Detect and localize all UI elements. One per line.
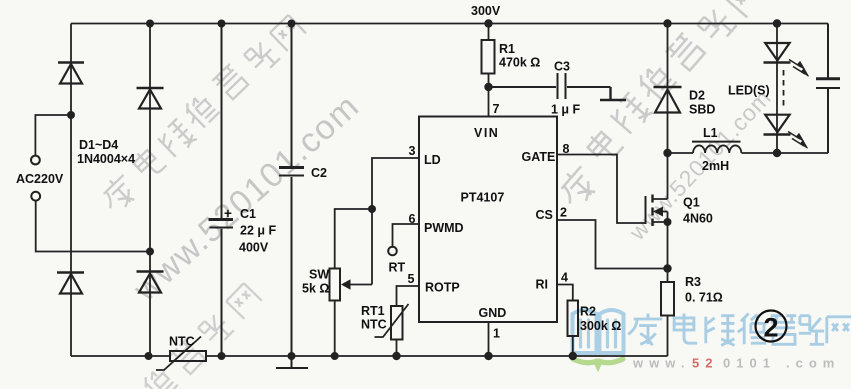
svg-text:3: 3 — [409, 144, 416, 158]
diode D2 of bridge (upper right) — [137, 24, 164, 252]
inductor L1 — [668, 142, 829, 153]
diode D3 (lower left) — [57, 273, 84, 357]
svg-text:LD: LD — [424, 153, 441, 167]
svg-text:52: 52 — [692, 356, 718, 371]
node bottom rail junctions — [145, 352, 578, 360]
wire pin 7 VIN — [488, 87, 490, 117]
svg-text:RT1: RT1 — [361, 304, 385, 318]
dashed series-LED continuation — [783, 70, 785, 108]
svg-text:7: 7 — [493, 102, 500, 116]
svg-text:1N4004×4: 1N4004×4 — [77, 152, 135, 166]
node LED string bottom — [773, 149, 781, 157]
wire pin 6 PWMD to RT terminal — [393, 224, 420, 247]
node CS / R3 junction — [663, 264, 671, 272]
capacitor C1 electrolytic — [209, 24, 234, 357]
svg-text:400V: 400V — [239, 241, 269, 255]
svg-text:.com: .com — [786, 356, 840, 371]
node switch node (D2/L1/drain) — [663, 149, 671, 157]
svg-text:GATE: GATE — [522, 150, 556, 164]
svg-text:NTC: NTC — [169, 335, 195, 349]
transistor Q1 4N60 MOSFET — [646, 153, 668, 269]
svg-text:2: 2 — [560, 206, 567, 220]
url watermark www.520101.com — [632, 356, 840, 371]
AC terminal 2 — [31, 192, 150, 252]
svg-text:8: 8 — [563, 142, 570, 156]
book logo watermark — [573, 310, 624, 366]
watermark diagonal hanzi line right — [553, 0, 765, 211]
resistor R3 — [661, 269, 674, 357]
diode D1 (upper left) — [58, 24, 84, 273]
wire bottom ground rail — [71, 355, 668, 357]
wire pot top feed — [335, 209, 372, 269]
node R1/C3/VIN junction — [484, 83, 492, 91]
svg-text:L1: L1 — [703, 126, 718, 140]
capacitor C2 — [279, 24, 304, 357]
svg-text:1: 1 — [493, 327, 500, 341]
node AC1 junction — [67, 111, 75, 119]
ground symbol for C3 — [600, 87, 626, 100]
svg-text:R2: R2 — [580, 305, 596, 319]
svg-text:NTC: NTC — [361, 318, 387, 332]
ground symbol below C2 — [276, 356, 308, 368]
potentiometer SW 5k — [330, 269, 373, 357]
svg-text:GND: GND — [479, 306, 507, 320]
svg-text:RI: RI — [536, 278, 549, 292]
watermark diagonal hanzi line top-left — [96, 15, 306, 216]
svg-text:AC220V: AC220V — [16, 172, 64, 186]
svg-text:Q1: Q1 — [683, 196, 700, 210]
diode D4 (lower right) — [137, 252, 164, 357]
capacitor across LED string — [816, 24, 840, 154]
svg-text:0. 71Ω: 0. 71Ω — [685, 291, 723, 305]
wire pin 2 CS to source sense — [557, 220, 668, 269]
watermark partial hanzi bottom-left — [138, 283, 261, 389]
svg-text:300V: 300V — [471, 4, 501, 18]
svg-text:www.520101.com: www.520101.com — [126, 87, 367, 310]
svg-text:SW: SW — [309, 268, 329, 282]
svg-text:C3: C3 — [554, 60, 570, 74]
wire pin 4 RI — [557, 285, 573, 301]
svg-text:R3: R3 — [685, 275, 701, 289]
wire top +300V rail — [71, 23, 828, 25]
resistor R1 — [482, 24, 495, 88]
wire pin 5 ROTP — [397, 286, 420, 306]
thermistor RT1 — [375, 304, 409, 356]
svg-text:PT4107: PT4107 — [461, 191, 505, 205]
svg-text:RT: RT — [389, 261, 406, 275]
svg-text:C2: C2 — [311, 166, 327, 180]
node Q1 source junction — [664, 218, 672, 226]
svg-text:SBD: SBD — [689, 103, 715, 117]
blue hanzi watermark line — [628, 314, 851, 346]
node AC2 junction — [146, 248, 154, 256]
resistor R2 — [568, 301, 579, 357]
wire pin 8 GATE to Q1 gate — [557, 155, 646, 224]
svg-text:PWMD: PWMD — [424, 221, 464, 235]
AC terminal 1 — [31, 115, 71, 164]
svg-text:470k Ω: 470k Ω — [499, 56, 540, 70]
LED 1 — [764, 24, 791, 135]
svg-text:1 μ F: 1 μ F — [551, 103, 581, 117]
svg-text:6: 6 — [409, 212, 416, 226]
svg-text:22 μ F: 22 μ F — [240, 224, 276, 238]
svg-text:LED(S): LED(S) — [728, 84, 770, 98]
figure number mark (2) — [756, 311, 787, 343]
wire pin 1 GND — [488, 322, 490, 356]
op-amp U1 PT4107 IC body — [419, 117, 557, 323]
svg-text:www.: www. — [632, 356, 690, 371]
svg-text:2: 2 — [763, 313, 778, 343]
book logo green base — [573, 359, 623, 366]
svg-text:4N60: 4N60 — [683, 212, 713, 226]
svg-text:2mH: 2mH — [702, 159, 729, 173]
node LD branch — [368, 205, 376, 213]
svg-text:VIN: VIN — [474, 126, 499, 140]
LED 1 emission arrows — [789, 60, 809, 77]
LED 2 emission arrows — [788, 132, 808, 149]
node RT open terminal — [388, 247, 397, 256]
svg-text:C1: C1 — [240, 207, 256, 221]
LED 2 — [764, 115, 791, 153]
svg-text:+: + — [224, 206, 232, 221]
svg-text:4: 4 — [561, 271, 568, 285]
svg-text:CS: CS — [536, 208, 553, 222]
svg-text:ROTP: ROTP — [425, 281, 460, 295]
diode D2 SBD — [654, 24, 682, 154]
svg-text:D2: D2 — [689, 89, 705, 103]
thermistor NTC on ground rail — [156, 337, 206, 371]
capacitor C3 — [489, 73, 611, 99]
svg-text:R1: R1 — [499, 42, 515, 56]
wire pin 3 LD — [372, 158, 419, 285]
svg-text:5k Ω: 5k Ω — [302, 282, 329, 296]
svg-text:5: 5 — [408, 272, 415, 286]
svg-text:300k Ω: 300k Ω — [580, 319, 621, 333]
svg-text:0101: 0101 — [723, 356, 776, 371]
svg-text:D1~D4: D1~D4 — [79, 138, 118, 152]
node top rail junctions — [146, 19, 781, 27]
